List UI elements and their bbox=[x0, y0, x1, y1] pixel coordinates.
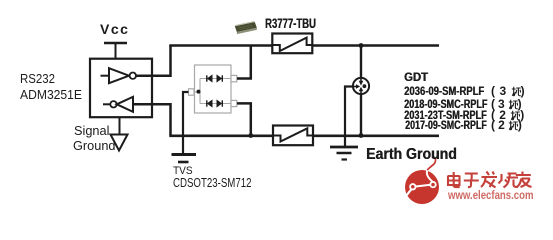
ground TVS bbox=[172, 155, 197, 163]
烧 bbox=[499, 174, 519, 188]
发 bbox=[481, 172, 497, 188]
label GDT bbox=[404, 70, 428, 84]
diode D1 bbox=[207, 75, 212, 81]
op-amp U1 box ADM3251E bbox=[90, 59, 152, 117]
watermark text 电子发烧友 (drawn strokes) bbox=[448, 172, 532, 188]
label Earth Ground bbox=[366, 146, 457, 164]
TBU R2 bottom bbox=[273, 126, 313, 146]
wire RX in bbox=[133, 104, 171, 135]
node top rail / GDT bbox=[359, 43, 364, 48]
wire top rail bbox=[169, 44, 439, 47]
receiver gate T2 bbox=[103, 97, 133, 112]
chip photo R3777 bbox=[235, 21, 258, 34]
wire GDT left electrode to earth bbox=[345, 87, 353, 147]
watermark url text bbox=[448, 188, 534, 202]
TBU R1 R3777-TBU top bbox=[272, 34, 312, 54]
子 bbox=[464, 174, 479, 188]
node TVS common bbox=[197, 90, 201, 94]
ground signal (arrow) bbox=[111, 117, 128, 150]
GDT U3 gas discharge tube bbox=[353, 46, 369, 137]
wire bottom rail bbox=[169, 135, 439, 138]
label TVS bbox=[173, 165, 193, 177]
label Vcc bbox=[100, 21, 129, 37]
ground earth bbox=[330, 147, 358, 160]
label GDT part 2018 bbox=[404, 97, 487, 111]
TVS U2 package CDSOT23-SM712 bbox=[189, 65, 237, 113]
label Signal bbox=[74, 123, 109, 138]
label GDT part 2031 bbox=[404, 108, 487, 122]
wire TVS pin2 to bottom rail bbox=[237, 103, 251, 136]
diode D3 bbox=[207, 100, 212, 106]
label RS232 bbox=[20, 71, 55, 86]
友 bbox=[516, 172, 532, 188]
diode D4 bbox=[217, 100, 222, 106]
label GDT part 2036 bbox=[404, 84, 484, 98]
driver gate T1 bbox=[101, 68, 137, 83]
diode D2 bbox=[217, 75, 222, 81]
label Ground bbox=[73, 138, 116, 153]
wire TVS pin3 to top rail bbox=[237, 45, 251, 79]
label CDSOT23-SM712 bbox=[173, 176, 252, 190]
label R3777-TBU bbox=[265, 15, 316, 31]
label GDT part 2017 bbox=[405, 118, 487, 132]
电 bbox=[448, 172, 460, 187]
wire TVS pin1 to ground bbox=[183, 92, 189, 154]
wire TX out bbox=[136, 45, 171, 76]
label ADM3251E bbox=[20, 88, 82, 102]
Vcc supply symbol bbox=[104, 43, 127, 59]
node bottom rail / TVS bbox=[248, 133, 253, 138]
watermark logo elecfans bbox=[405, 157, 440, 204]
node bottom rail / GDT bbox=[359, 133, 364, 138]
